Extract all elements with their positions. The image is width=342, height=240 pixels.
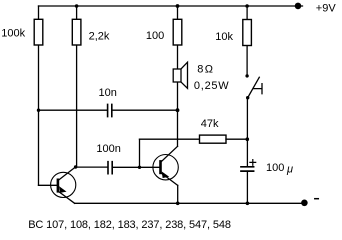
label transistor types BC107... — [28, 219, 231, 231]
label 100 — [146, 30, 164, 42]
switch S1 push contact — [245, 74, 262, 99]
svg-text:+9V: +9V — [316, 3, 337, 15]
wire Q2 emitter drop to ground rail — [177, 185, 179, 203]
wire 10n link (Q1 base node to left plate of 10n) — [39, 109, 108, 111]
wire speaker branch vertical (+9V through 100 resistor and speaker down to Q2 collector) — [177, 6, 179, 146]
svg-text:2,2k: 2,2k — [89, 30, 110, 42]
label 0,25W — [194, 80, 230, 92]
svg-text:100n: 100n — [96, 143, 120, 155]
node junction 100k/10n tap — [37, 109, 40, 112]
svg-text:0,25W: 0,25W — [194, 80, 230, 92]
node junction 100/speaker on +9V rail — [176, 4, 180, 8]
wire 47k riser vertical — [139, 139, 141, 167]
label 100k — [1, 28, 25, 40]
node junction Q2 emitter on rail — [176, 202, 180, 206]
wire 10k branch vertical (+9V to switch top contact) — [246, 6, 248, 76]
svg-text:47k: 47k — [201, 118, 219, 130]
speaker 8 ohm 0,25W — [173, 62, 187, 88]
node junction 10k on +9V rail — [245, 4, 249, 8]
capacitor 100n — [108, 162, 112, 174]
terminal minus — [301, 200, 308, 207]
label 100u — [266, 162, 293, 175]
label 2,2k — [89, 30, 110, 42]
label 8 ohm — [197, 64, 213, 76]
wire left vertical (100k branch, +9V to Q1 base) — [38, 6, 40, 185]
node junction 2,2k on +9V rail — [75, 4, 79, 8]
svg-text:10k: 10k — [215, 31, 233, 43]
node junction 100u on rail — [246, 202, 250, 206]
transistor Q1 — [51, 167, 76, 203]
wire 100u bottom to ground rail — [246, 171, 248, 203]
wire 2,2k branch vertical (+9V down to Q1 collector node) — [76, 6, 78, 167]
resistor 2,2k — [72, 19, 81, 45]
svg-text:100k: 100k — [1, 28, 25, 40]
label 47k — [201, 118, 219, 130]
node junction 100n/47k/Q2 base — [138, 166, 141, 169]
wire Q1 collector to 100n left plate — [76, 166, 108, 168]
svg-text:μ: μ — [286, 164, 293, 176]
label +9V — [316, 3, 337, 15]
svg-text:10n: 10n — [99, 87, 117, 99]
wire Q1 base horizontal — [39, 184, 58, 186]
capacitor 100u electrolytic — [241, 160, 256, 172]
node junction 47k/switch/100u — [246, 137, 250, 141]
svg-text:BC 107, 108, 182, 183, 237, 23: BC 107, 108, 182, 183, 237, 238, 547, 54… — [28, 219, 231, 231]
capacitor 10n — [108, 104, 112, 116]
svg-text:8: 8 — [197, 64, 203, 76]
node junction 10n/speaker/Q2 collector — [176, 108, 180, 112]
svg-text:100: 100 — [146, 30, 164, 42]
resistor 100 — [173, 19, 182, 45]
wire top +9V rail — [39, 5, 303, 7]
label 10n — [99, 87, 117, 99]
wire 100n right plate to Q2 base — [112, 166, 160, 168]
svg-text:Ω: Ω — [205, 64, 213, 76]
transistor Q2 — [153, 146, 178, 185]
svg-text:100: 100 — [266, 162, 284, 174]
wire bottom ground rail — [75, 202, 305, 204]
resistor 10k — [243, 20, 252, 46]
wire switch bottom to 100u top — [246, 98, 248, 167]
wire 47k right lead — [226, 138, 247, 140]
resistor 100k — [34, 19, 43, 45]
wire 47k left lead — [140, 138, 200, 140]
node junction Q1 collector / 2,2k / 100n — [74, 165, 77, 168]
label 10k — [215, 31, 233, 43]
minus sign label — [315, 198, 319, 200]
wire 10n right plate to speaker node — [112, 109, 178, 111]
resistor 47k — [200, 135, 227, 143]
label 100n — [96, 143, 120, 155]
terminal +9V — [295, 3, 302, 10]
